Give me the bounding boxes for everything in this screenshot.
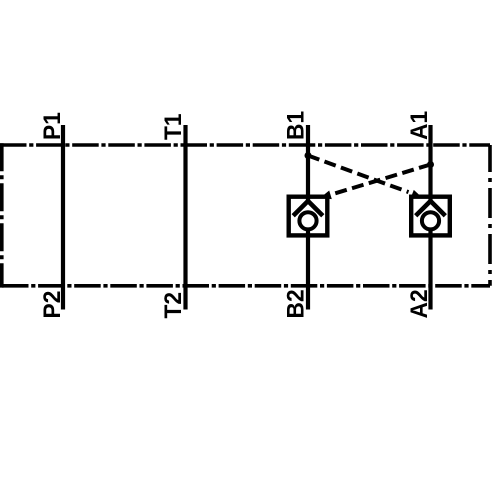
- pilot line from node B1 to check valve CV2: [308, 156, 409, 193]
- check valve CV2 seat: [416, 201, 446, 216]
- svg-text:T1: T1: [159, 113, 186, 140]
- check valve CV1 seat: [293, 201, 323, 216]
- wire T1-T2: [183, 125, 187, 310]
- subplate boundary top edge: [0, 143, 490, 147]
- check valve CV1 ball: [299, 212, 316, 229]
- wire A1 upper segment: [428, 125, 432, 202]
- svg-text:A2: A2: [405, 289, 432, 318]
- svg-text:A1: A1: [405, 111, 432, 140]
- subplate boundary right edge: [488, 145, 492, 286]
- node B1 junction dot: [305, 152, 312, 159]
- pilot line from node A1 to check valve CV1: [330, 165, 431, 195]
- node A1 junction dot: [427, 161, 434, 168]
- subplate boundary bottom edge: [2, 284, 490, 288]
- wire B1 upper segment: [306, 125, 310, 202]
- wire P1-P2: [61, 125, 65, 310]
- svg-text:P1: P1: [38, 112, 65, 140]
- check valve CV1 box: [289, 197, 328, 236]
- pilot arrowhead at CV1: [320, 191, 332, 200]
- wire B2 lower segment: [306, 230, 310, 310]
- svg-text:B1: B1: [282, 111, 309, 140]
- svg-text:B2: B2: [282, 289, 309, 318]
- wire A2 lower segment: [428, 230, 432, 310]
- pilot arrowhead at CV2: [411, 190, 423, 198]
- check valve CV2 ball: [422, 212, 439, 229]
- check valve CV2 box: [411, 197, 450, 236]
- svg-text:P2: P2: [38, 291, 65, 319]
- subplate boundary left edge: [0, 143, 4, 287]
- svg-text:T2: T2: [159, 292, 186, 319]
